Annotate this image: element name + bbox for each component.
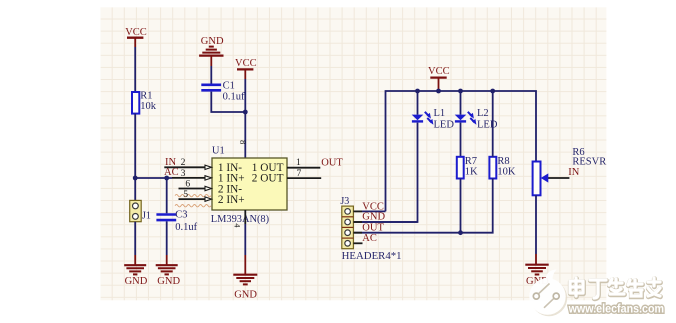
wire J1 to GND bbox=[134, 222, 136, 255]
svg-text:C1: C1 bbox=[223, 80, 235, 91]
power port VCC (middle) bbox=[235, 58, 257, 79]
wire GND to C1 bbox=[210, 66, 212, 84]
pin 2 (1 IN-) bbox=[164, 157, 211, 169]
LED L1 bbox=[412, 108, 455, 130]
power port GND (below C3) bbox=[156, 255, 181, 287]
svg-text:6: 6 bbox=[185, 178, 190, 189]
svg-text:J1: J1 bbox=[142, 211, 151, 222]
pin J3-3 bbox=[353, 232, 362, 234]
svg-text:GND: GND bbox=[157, 276, 180, 287]
svg-text:4: 4 bbox=[233, 223, 242, 227]
svg-text:IN: IN bbox=[568, 167, 579, 178]
svg-text:5: 5 bbox=[183, 189, 188, 200]
sheet background bbox=[101, 7, 607, 300]
wire L1 to GND net bbox=[353, 123, 417, 222]
svg-text:HEADER4*1: HEADER4*1 bbox=[342, 250, 402, 262]
watermark url text bbox=[568, 301, 664, 315]
svg-text:10K: 10K bbox=[497, 166, 516, 177]
wire R1 to node AC bbox=[134, 114, 136, 178]
wire junction to U1 pin 8 bbox=[244, 112, 246, 158]
resistor R8 bbox=[489, 156, 516, 179]
wire L2 to R7 bbox=[460, 123, 462, 157]
wire VCC to R1 bbox=[134, 47, 136, 92]
wire node to C3 bbox=[166, 178, 168, 213]
pin J3-1 bbox=[353, 210, 362, 212]
wire bus to L1 bbox=[417, 91, 419, 115]
wire J3-2 to L1 bbox=[362, 221, 418, 223]
svg-text:J3: J3 bbox=[340, 196, 349, 207]
svg-text:C3: C3 bbox=[175, 210, 187, 221]
svg-text:L1: L1 bbox=[434, 108, 446, 119]
connector J1 bbox=[130, 200, 151, 221]
svg-text:LED: LED bbox=[434, 119, 455, 130]
svg-text:1K: 1K bbox=[465, 166, 478, 177]
svg-text:R8: R8 bbox=[497, 156, 509, 167]
wire VCC to junction bbox=[244, 79, 246, 112]
wire R8 to OUT net bbox=[353, 179, 492, 233]
wire bus to R8 bbox=[492, 91, 494, 157]
svg-text:GND: GND bbox=[125, 276, 148, 287]
svg-text:2: 2 bbox=[181, 157, 186, 168]
svg-text:GND: GND bbox=[201, 36, 224, 47]
junction node at C3 bbox=[164, 176, 169, 181]
junction node bus/R8 bbox=[490, 89, 495, 94]
svg-text:LED: LED bbox=[477, 119, 498, 130]
pin 1 (1 OUT) bbox=[287, 157, 320, 168]
power port GND (below U1) bbox=[233, 255, 257, 301]
svg-text:8: 8 bbox=[238, 140, 248, 144]
watermark chinese glyphs bbox=[570, 278, 660, 299]
svg-text:R7: R7 bbox=[465, 156, 477, 167]
svg-text:1: 1 bbox=[296, 157, 301, 168]
power port GND (below R6) bbox=[525, 254, 549, 287]
power port GND (top, above C1) bbox=[199, 36, 224, 66]
compile-error squiggle pin 6 bbox=[175, 194, 211, 196]
wire pin4 to GND bbox=[244, 224, 246, 255]
resistor R1 bbox=[132, 90, 157, 113]
svg-text:GND: GND bbox=[362, 212, 385, 223]
connector J3 bbox=[340, 196, 401, 262]
power port VCC (left) bbox=[125, 27, 147, 47]
pin 4 stub bbox=[244, 210, 246, 224]
capacitor C1 bbox=[201, 80, 245, 102]
svg-text:VCC: VCC bbox=[235, 58, 257, 69]
wire node to J1 bbox=[134, 178, 136, 200]
svg-text:U1: U1 bbox=[212, 146, 225, 157]
wiper arrow R6 bbox=[541, 173, 570, 182]
wire J3-1 to bus bbox=[362, 210, 386, 212]
svg-text:7: 7 bbox=[297, 168, 302, 179]
junction node bus/VCC bbox=[436, 89, 441, 94]
svg-text:GND: GND bbox=[234, 290, 257, 301]
pin J3-2 bbox=[353, 221, 362, 223]
svg-text:RESVR: RESVR bbox=[572, 156, 606, 167]
svg-text:OUT: OUT bbox=[362, 222, 384, 233]
op-amp U1 LM393AN(8) body bbox=[211, 146, 287, 225]
svg-text:www.elecfans.com: www.elecfans.com bbox=[568, 301, 664, 315]
junction node bus/L1 bbox=[415, 89, 420, 94]
wire R7 to OUT net bbox=[460, 179, 462, 233]
svg-text:10k: 10k bbox=[140, 101, 157, 112]
pin 5 (2 IN+) bbox=[179, 189, 212, 201]
svg-text:AC: AC bbox=[362, 233, 377, 244]
wire R6 to GND bbox=[535, 195, 537, 254]
pin 6 (2 IN-) bbox=[179, 178, 212, 190]
svg-text:L2: L2 bbox=[477, 108, 489, 119]
svg-text:R1: R1 bbox=[140, 90, 152, 101]
svg-text:VCC: VCC bbox=[125, 27, 147, 38]
potentiometer R6 bbox=[533, 147, 607, 196]
pin 7 (2 OUT) bbox=[287, 168, 321, 179]
junction node bus/L2 bbox=[458, 89, 463, 94]
wire AC net horizontal bbox=[135, 177, 172, 179]
LED L2 bbox=[455, 108, 498, 130]
power port GND (below J1) bbox=[124, 255, 148, 287]
resistor R7 bbox=[457, 156, 478, 179]
svg-text:0.1uf: 0.1uf bbox=[223, 91, 245, 102]
wire C1 to pin8 node bbox=[211, 92, 245, 112]
svg-text:OUT: OUT bbox=[321, 157, 343, 168]
junction node R7/OUT bbox=[458, 230, 463, 235]
svg-text:2 OUT: 2 OUT bbox=[252, 173, 284, 185]
capacitor C3 bbox=[156, 210, 197, 233]
junction node at R1/J1 bbox=[133, 176, 138, 181]
power port VCC (right) bbox=[428, 66, 450, 91]
svg-text:2 IN+: 2 IN+ bbox=[218, 194, 245, 206]
svg-text:0.1uf: 0.1uf bbox=[175, 222, 197, 233]
pin J3-4 stub bbox=[353, 242, 362, 244]
wire VCC bus bbox=[386, 91, 537, 211]
watermark logo bbox=[529, 270, 567, 317]
pin 3 (1 IN+) bbox=[172, 168, 212, 180]
wire bus to L2 bbox=[460, 91, 462, 115]
junction node bbox=[243, 110, 248, 115]
compile-error squiggle pin 5 bbox=[175, 205, 211, 207]
wire C3 to GND bbox=[166, 221, 168, 255]
svg-text:VCC: VCC bbox=[428, 66, 450, 77]
svg-text:3: 3 bbox=[181, 168, 186, 179]
